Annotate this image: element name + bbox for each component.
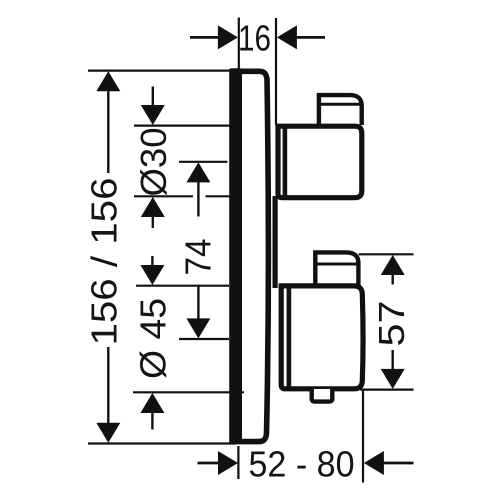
svg-text:74: 74 — [178, 239, 219, 276]
dim 52-80: right arrow — [364, 451, 384, 475]
dim 57: upper stem — [392, 274, 394, 285]
dim 74: bottom extension line — [179, 338, 229, 340]
dim 52-80: left leader — [198, 462, 220, 465]
dim 74: top extension line — [179, 161, 228, 163]
dim Ø30: bottom stem — [152, 216, 154, 228]
dim Ø30: top extension line — [134, 124, 230, 126]
svg-text:52 - 80: 52 - 80 — [249, 444, 355, 485]
dim 57: bottom extension line — [360, 389, 413, 391]
plate outline — [234, 71, 268, 441]
dim Ø45: top extension line — [136, 285, 229, 287]
dim Ø45: label — [133, 298, 174, 379]
sleeve between knobs — [273, 196, 278, 288]
dim 16: left arrow — [218, 25, 238, 49]
dim 16: right arrow — [277, 25, 297, 49]
dim 16: left leader — [190, 36, 219, 39]
dim Ø45: top arrow — [140, 265, 164, 285]
svg-text:Ø 45: Ø 45 — [133, 298, 174, 379]
dim 57: bottom arrow — [381, 369, 405, 389]
dim 156/156: upper stem — [107, 90, 109, 173]
dim 57: top arrow — [381, 255, 405, 275]
upper knob stem — [319, 95, 362, 125]
dim Ø45: bottom stem — [151, 412, 153, 430]
dim 156/156: lower stem — [107, 347, 109, 424]
dim 57: top extension line — [359, 253, 414, 255]
svg-text:Ø30: Ø30 — [133, 128, 174, 197]
dim Ø30: bottom arrow — [141, 197, 165, 217]
dim 156/156: label — [84, 178, 125, 346]
dim Ø30: label — [133, 128, 174, 197]
lower knob stem cap line — [316, 263, 359, 266]
dim 74: lower stem — [197, 286, 199, 320]
upper knob inner line — [283, 126, 288, 197]
dim 156/156: top arrow — [96, 71, 120, 91]
svg-text:156 / 156: 156 / 156 — [84, 178, 125, 346]
dim 156/156: bottom arrow — [96, 423, 120, 443]
upper knob stem cap line — [319, 103, 361, 106]
dim 156/156: bottom extension line — [88, 442, 236, 444]
dim Ø45: bottom extension line — [133, 391, 244, 393]
dim 16: right leader — [296, 36, 325, 39]
lower knob bottom tab — [312, 389, 333, 402]
dim 52-80: right extension line — [362, 391, 364, 483]
svg-text:57: 57 — [371, 301, 412, 347]
dim 52-80: left arrow — [218, 451, 238, 475]
dim 16: right extension line — [275, 18, 277, 125]
upper knob body — [278, 126, 362, 198]
svg-text:16: 16 — [238, 18, 271, 59]
dim 74: bottom arrow — [186, 318, 210, 338]
dim 156/156: top extension line — [88, 69, 236, 71]
dim Ø30: top stem — [152, 87, 154, 107]
dim 74: top arrow — [186, 162, 210, 182]
dim 74: label — [178, 239, 219, 276]
lower knob body — [281, 286, 363, 389]
dim 57: lower stem — [392, 350, 394, 370]
dim 52-80: right leader — [383, 462, 414, 465]
dim Ø45: bottom arrow — [140, 393, 164, 413]
lower knob stem — [315, 252, 358, 287]
dim Ø30: top arrow — [141, 105, 165, 125]
dim 52-80: left extension line — [237, 446, 239, 479]
dim Ø30: bottom extension line (gap at 74 stem) — [134, 195, 193, 197]
dim 16: left extension line — [238, 18, 240, 74]
dim 57: label — [371, 301, 412, 347]
dim Ø45: top stem — [151, 256, 153, 266]
lower knob inner line — [287, 286, 292, 389]
plate back bar — [229, 68, 242, 444]
dim 74: upper stem — [197, 182, 199, 217]
